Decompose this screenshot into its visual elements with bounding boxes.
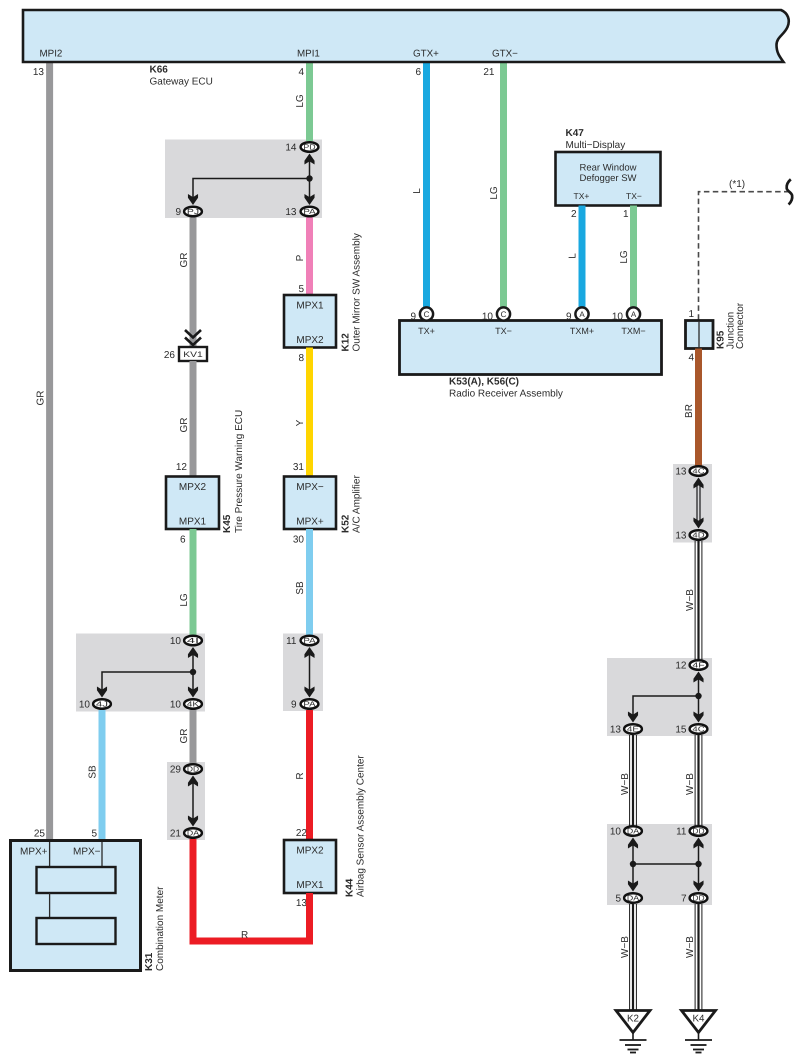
- svg-text:LG: LG: [489, 186, 500, 200]
- svg-text:PA: PA: [303, 699, 315, 708]
- wire W-B from 4E to DA: [630, 735, 637, 827]
- arrow into 4C 15: [693, 712, 703, 723]
- svg-text:K66: K66: [150, 65, 169, 76]
- wire L from K47 TX+: [579, 206, 586, 309]
- svg-text:K12: K12: [341, 333, 352, 352]
- svg-text:TXM+: TXM+: [570, 326, 594, 336]
- svg-text:W−B: W−B: [620, 936, 631, 958]
- svg-text:MPI2: MPI2: [40, 49, 63, 60]
- arrow into 4J: [97, 687, 107, 698]
- arrow into 4K: [188, 687, 198, 698]
- svg-text:4: 4: [298, 67, 304, 78]
- wire link PD to junction: [309, 160, 311, 199]
- dashed wire (*1) to K95: [699, 192, 790, 321]
- connector PA 13: [285, 207, 318, 218]
- svg-text:9: 9: [410, 312, 416, 323]
- wire Y from K12 pin 8 to K52 pin 31: [306, 348, 313, 478]
- svg-text:Rear Window: Rear Window: [579, 163, 636, 174]
- gray connector block PA/PA: [283, 634, 323, 712]
- svg-text:KV1: KV1: [183, 350, 203, 359]
- svg-text:K45: K45: [222, 514, 233, 533]
- connector 4J 10: [79, 699, 111, 710]
- svg-text:4E: 4E: [627, 724, 639, 733]
- wire branch to PJ: [193, 179, 310, 199]
- svg-text:22: 22: [296, 828, 308, 839]
- svg-text:SB: SB: [295, 581, 306, 595]
- junction dot: [190, 669, 196, 675]
- wire R from DA to K44 pin 13: [193, 839, 310, 941]
- svg-text:12: 12: [176, 462, 188, 473]
- arrow into 4D: [693, 518, 703, 529]
- svg-text:5: 5: [91, 829, 97, 840]
- arrow into 4I: [188, 647, 198, 658]
- svg-text:L: L: [568, 253, 579, 259]
- svg-text:5: 5: [298, 284, 304, 295]
- connector 4F 12: [675, 660, 707, 671]
- arrow into PJ: [188, 194, 198, 205]
- svg-text:K47: K47: [566, 128, 585, 139]
- connector circle C pin 9: [410, 307, 433, 322]
- svg-text:K44: K44: [345, 878, 356, 897]
- svg-text:MPX+: MPX+: [296, 517, 324, 528]
- svg-text:25: 25: [34, 829, 46, 840]
- wire W-B from DD 7 to ground K4: [695, 904, 702, 1010]
- svg-text:TX+: TX+: [574, 191, 590, 201]
- arrow into 4F: [693, 672, 703, 683]
- connector 4E 13: [610, 724, 642, 735]
- svg-text:10: 10: [610, 827, 622, 838]
- svg-text:26: 26: [164, 350, 176, 361]
- wire W-B from DA 5 to ground K2: [630, 904, 637, 1010]
- svg-text:5: 5: [615, 894, 621, 905]
- wire L from K66 GTX+ pin 6: [423, 62, 430, 308]
- wire GR from 4K to DD: [190, 710, 197, 766]
- component K52 A/C Amplifier: [284, 475, 363, 533]
- component K44 Airbag Sensor Assembly Center: [284, 755, 367, 897]
- svg-text:K52: K52: [341, 514, 352, 533]
- svg-text:DA: DA: [627, 893, 639, 902]
- connector DA 10: [610, 826, 642, 837]
- wire BR from K95 pin 4 to 4C: [695, 349, 702, 467]
- svg-text:2: 2: [571, 209, 577, 220]
- component K45 Tire Pressure Warning ECU: [166, 410, 245, 533]
- svg-text:TX−: TX−: [626, 191, 642, 201]
- svg-text:11: 11: [286, 636, 297, 647]
- component K12 Outer Mirror SW Assembly: [284, 233, 363, 351]
- junction dot left: [630, 861, 636, 867]
- arrow into 4C: [693, 478, 703, 489]
- connector PA 11: [286, 636, 318, 647]
- arrow into 4E: [628, 712, 638, 723]
- svg-text:GR: GR: [35, 391, 46, 406]
- wire LG from K47 TX-: [630, 206, 637, 309]
- arrow into PA 9: [304, 687, 314, 698]
- svg-text:DD: DD: [692, 826, 704, 835]
- component K66 Gateway ECU: [23, 10, 789, 62]
- svg-text:6: 6: [180, 535, 186, 546]
- svg-text:10: 10: [482, 312, 494, 323]
- svg-text:13: 13: [675, 531, 687, 542]
- gray connector block DD/DA: [167, 762, 205, 840]
- svg-text:A: A: [579, 310, 585, 319]
- svg-text:P: P: [295, 254, 306, 261]
- svg-text:15: 15: [675, 725, 687, 736]
- svg-text:4J: 4J: [96, 699, 109, 708]
- svg-text:MPX1: MPX1: [296, 301, 324, 312]
- svg-text:PA: PA: [303, 207, 315, 216]
- svg-text:MPX2: MPX2: [296, 335, 324, 346]
- svg-text:DA: DA: [187, 828, 199, 837]
- svg-text:Defogger SW: Defogger SW: [579, 173, 636, 184]
- junction dot: [695, 693, 701, 699]
- wire W-B from 4C to DD: [695, 735, 702, 827]
- svg-text:GR: GR: [179, 253, 190, 268]
- svg-text:Outer Mirror SW Assembly: Outer Mirror SW Assembly: [352, 233, 363, 351]
- svg-text:13: 13: [610, 725, 622, 736]
- wire W-B from 4D to 4F: [695, 541, 702, 661]
- svg-text:10: 10: [170, 700, 182, 711]
- connector circle A pin 10: [612, 307, 640, 322]
- wire GR from K66 pin 13 to K31 pin 25: [46, 62, 53, 840]
- svg-text:A/C Amplifier: A/C Amplifier: [352, 475, 363, 533]
- wire SB from 4J to K31 pin 5: [99, 710, 106, 841]
- svg-text:29: 29: [170, 765, 182, 776]
- connector DD 29: [170, 764, 202, 775]
- gray connector block 4F/4E/4C: [607, 658, 712, 736]
- svg-text:LG: LG: [179, 593, 190, 607]
- arrow into DA 5: [628, 881, 638, 892]
- svg-text:C: C: [501, 310, 507, 319]
- svg-text:PJ: PJ: [187, 207, 200, 216]
- arrow into PD: [304, 154, 314, 165]
- connector DD 11: [676, 826, 707, 837]
- wire link to junction: [192, 653, 194, 691]
- wire R from PA 9 to K44 pin 22: [306, 710, 313, 841]
- svg-text:13: 13: [675, 467, 687, 478]
- svg-text:14: 14: [285, 143, 297, 154]
- svg-text:MPX+: MPX+: [20, 847, 48, 858]
- svg-text:SB: SB: [88, 765, 99, 779]
- svg-text:1: 1: [688, 309, 694, 320]
- junction dot: [306, 175, 312, 181]
- wire GR from KV1 to K45 pin 12: [190, 361, 197, 477]
- svg-text:7: 7: [681, 894, 687, 905]
- svg-text:MPX−: MPX−: [296, 482, 324, 493]
- svg-text:GR: GR: [179, 729, 190, 744]
- svg-text:TXM−: TXM−: [621, 326, 645, 336]
- connector PJ 9: [175, 207, 201, 218]
- arrow into DD 11: [693, 838, 703, 849]
- connector circle A pin 9: [566, 307, 589, 322]
- wire branch to 4J: [102, 672, 193, 691]
- svg-text:13: 13: [285, 207, 297, 218]
- svg-text:TX+: TX+: [418, 326, 435, 336]
- svg-text:TX−: TX−: [495, 326, 512, 336]
- component K31 Combination Meter: [11, 841, 167, 972]
- svg-text:GR: GR: [179, 418, 190, 433]
- svg-text:Connector: Connector: [735, 302, 746, 349]
- svg-text:10: 10: [170, 636, 182, 647]
- gray connector block DA/DD right: [607, 824, 712, 905]
- svg-text:W−B: W−B: [620, 773, 631, 795]
- svg-text:Y: Y: [295, 419, 306, 426]
- svg-text:Tire Pressure Warning ECU: Tire Pressure Warning ECU: [234, 410, 245, 533]
- svg-text:W−B: W−B: [685, 936, 696, 958]
- svg-text:Combination Meter: Combination Meter: [155, 886, 166, 971]
- component K53(A)/K56(C) Radio Receiver Assembly: [400, 321, 662, 375]
- svg-text:BR: BR: [684, 404, 695, 418]
- svg-text:MPX2: MPX2: [296, 846, 324, 857]
- svg-text:31: 31: [293, 462, 305, 473]
- svg-text:K4: K4: [693, 1014, 706, 1025]
- svg-text:A: A: [631, 310, 637, 319]
- break squiggle: [787, 179, 793, 204]
- connector DD 7: [681, 893, 707, 904]
- svg-text:21: 21: [170, 829, 182, 840]
- svg-text:30: 30: [293, 535, 305, 546]
- svg-text:LG: LG: [295, 94, 306, 108]
- arrow into DD: [188, 776, 198, 787]
- svg-text:DD: DD: [187, 764, 199, 773]
- connector 4D 13: [675, 530, 707, 541]
- svg-text:4C: 4C: [692, 724, 705, 733]
- svg-text:9: 9: [291, 700, 297, 711]
- svg-text:13: 13: [296, 898, 308, 909]
- wire LG from K45 to 4I: [190, 529, 197, 636]
- svg-text:10: 10: [79, 700, 91, 711]
- svg-text:(*1): (*1): [729, 179, 745, 190]
- gray connector block 4C/4D: [673, 464, 712, 543]
- connector DA 21: [170, 828, 202, 839]
- svg-text:L: L: [412, 188, 423, 194]
- wire link: [192, 781, 194, 820]
- gray connector block PD/PJ/PA: [165, 140, 322, 219]
- svg-text:MPI1: MPI1: [297, 49, 320, 60]
- connector 4I 10: [170, 636, 202, 647]
- ground K2: [616, 1011, 650, 1053]
- svg-text:10: 10: [612, 312, 624, 323]
- svg-text:K53(A), K56(C): K53(A), K56(C): [449, 377, 519, 388]
- svg-text:K31: K31: [144, 952, 155, 971]
- connector 4C 15: [675, 724, 707, 735]
- svg-text:4: 4: [688, 353, 694, 364]
- connector 4K 10: [170, 699, 202, 710]
- chevron shield: [185, 330, 201, 338]
- svg-text:PA: PA: [303, 636, 315, 645]
- wire branch to 4E: [633, 696, 699, 716]
- arrow into DA 10: [628, 838, 638, 849]
- wire SB from K52 to PA 11: [306, 529, 313, 636]
- svg-text:1: 1: [623, 209, 629, 220]
- svg-text:K2: K2: [627, 1014, 639, 1025]
- svg-text:DA: DA: [627, 826, 639, 835]
- svg-text:MPX1: MPX1: [179, 517, 207, 528]
- svg-text:W−B: W−B: [685, 773, 696, 795]
- connector KV1 26: [164, 347, 207, 361]
- svg-text:MPX−: MPX−: [73, 847, 101, 858]
- connector DA 5: [615, 893, 641, 904]
- svg-text:21: 21: [483, 67, 495, 78]
- double wire link: [696, 483, 698, 522]
- svg-text:4I: 4I: [187, 636, 199, 645]
- svg-text:8: 8: [298, 353, 304, 364]
- wire LG from K66 GTX- pin 21: [500, 62, 507, 308]
- svg-text:9: 9: [566, 312, 572, 323]
- arrow into PA: [304, 194, 314, 205]
- svg-text:MPX1: MPX1: [296, 880, 324, 891]
- ground K4: [682, 1011, 716, 1053]
- svg-text:Multi−Display: Multi−Display: [566, 140, 626, 151]
- connector circle C pin 10: [482, 307, 510, 322]
- svg-text:DD: DD: [692, 893, 704, 902]
- svg-text:Gateway ECU: Gateway ECU: [150, 77, 213, 88]
- svg-text:13: 13: [33, 67, 45, 78]
- arrow into DD 7: [693, 881, 703, 892]
- svg-text:6: 6: [415, 67, 421, 78]
- wire P from PA to K12 pin 5: [306, 218, 313, 297]
- svg-text:4D: 4D: [692, 530, 704, 539]
- svg-text:4K: 4K: [187, 699, 199, 708]
- svg-text:Airbag Sensor Assembly Center: Airbag Sensor Assembly Center: [356, 755, 367, 897]
- svg-text:MPX2: MPX2: [179, 482, 207, 493]
- wire link to junction: [698, 678, 700, 717]
- wire LG from K66 pin 4 to PD: [306, 62, 313, 141]
- svg-text:Radio Receiver Assembly: Radio Receiver Assembly: [449, 389, 563, 400]
- svg-text:4F: 4F: [692, 660, 705, 669]
- svg-text:GTX+: GTX+: [413, 49, 439, 60]
- svg-text:R: R: [295, 772, 306, 779]
- connector PD 14: [285, 142, 318, 153]
- component K47 Multi-Display: [556, 152, 661, 206]
- svg-text:C: C: [424, 310, 430, 319]
- wire links with junction dots: [632, 844, 634, 886]
- svg-text:4C: 4C: [692, 466, 705, 475]
- arrow into DA: [188, 816, 198, 827]
- component K95 Junction Connector: [686, 321, 714, 349]
- connector 4C 13: [675, 466, 707, 477]
- svg-text:LG: LG: [619, 250, 630, 264]
- svg-text:12: 12: [675, 661, 687, 672]
- wire bridge: [633, 863, 699, 865]
- arrow into PA 11: [304, 647, 314, 658]
- svg-text:W−B: W−B: [685, 589, 696, 611]
- gray connector block 4I/4J/4K: [76, 634, 205, 712]
- svg-text:PD: PD: [303, 142, 315, 151]
- wire link: [309, 653, 311, 691]
- wire GR from PJ to KV1: [190, 218, 197, 348]
- svg-text:9: 9: [175, 207, 181, 218]
- svg-text:11: 11: [676, 827, 687, 838]
- junction dot right: [695, 861, 701, 867]
- svg-text:GTX−: GTX−: [492, 49, 518, 60]
- connector PA 9: [291, 699, 318, 710]
- svg-text:R: R: [241, 930, 248, 941]
